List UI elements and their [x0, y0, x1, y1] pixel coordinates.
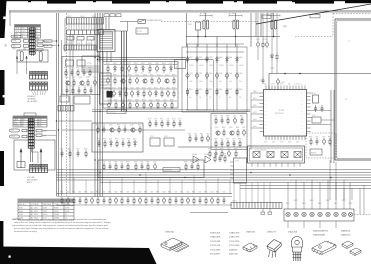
svg-text:RY802: RY802 [36, 51, 40, 53]
key scan resistor ladder left of IC [251, 93, 260, 150]
svg-text:L703: L703 [87, 43, 90, 45]
TO-220F package [292, 237, 303, 262]
oval texts block3 [11, 130, 16, 138]
IC701 internal pin names right [301, 93, 303, 134]
table T2 text [14, 118, 42, 128]
svg-text:R921: R921 [150, 74, 154, 76]
svg-text:C962: C962 [206, 133, 210, 135]
dashed continuation right [354, 214, 371, 216]
svg-text:D903: D903 [209, 57, 213, 59]
svg-text:C732: C732 [260, 80, 264, 82]
svg-text:R766: R766 [127, 138, 131, 140]
AC cord wires [106, 17, 109, 30]
svg-text:C605: C605 [114, 192, 118, 194]
svg-text:STA714DK: STA714DK [210, 232, 221, 235]
svg-text:R914: R914 [134, 63, 138, 65]
svg-text:1N4002: 1N4002 [239, 65, 244, 67]
svg-text:C592: C592 [76, 148, 80, 150]
svg-text:R962: R962 [200, 133, 204, 135]
svg-text:4700u: 4700u [199, 81, 203, 83]
svg-text:C764: C764 [121, 138, 125, 140]
svg-text:P12: P12 [265, 128, 267, 130]
svg-text:C746: C746 [77, 86, 81, 88]
op-amp A triangle [193, 156, 199, 163]
sheet top border line [9, 10, 371, 12]
svg-text:R762: R762 [117, 124, 121, 126]
IC701 internal pin numbers bottom [265, 134, 306, 136]
wires from decoupling to IC top [258, 13, 278, 89]
op-amp inner box [250, 148, 303, 161]
connector drop wires [234, 182, 270, 203]
svg-text:1N4002: 1N4002 [229, 65, 234, 67]
svg-text:R913: R913 [120, 63, 124, 65]
svg-text:D701: D701 [312, 115, 316, 117]
svg-text:D901: D901 [189, 57, 193, 59]
svg-text:1-2: 1-2 [22, 34, 24, 36]
svg-text:D761: D761 [109, 138, 113, 140]
block3 outer box [14, 140, 55, 170]
svg-text:2SA1362: 2SA1362 [229, 248, 238, 251]
front panel board outline [64, 18, 66, 52]
transformer secondary leads [99, 52, 111, 63]
sheet top border second line [9, 12, 371, 14]
speaker fan-out lines [31, 90, 46, 95]
svg-text:UL: UL [65, 214, 67, 216]
svg-text:P06: P06 [265, 114, 267, 116]
rail junction dots [284, 73, 301, 75]
filter labels [67, 43, 90, 45]
svg-text:LED1: LED1 [253, 126, 257, 128]
svg-text:C601: C601 [66, 192, 70, 194]
svg-text:C928: C928 [163, 99, 167, 101]
svg-text:R745: R745 [86, 77, 90, 79]
regulator board outline [103, 62, 178, 109]
op-amp box C [281, 152, 288, 158]
svg-text:R953: R953 [240, 115, 244, 117]
bus line 4 [57, 179, 371, 181]
connector oval CN102 [11, 44, 21, 47]
sub board feed wire [213, 60, 215, 112]
svg-text:C773: C773 [178, 118, 182, 120]
svg-text:R781: R781 [102, 161, 106, 163]
svg-text:R786: R786 [184, 161, 188, 163]
svg-text:R791: R791 [208, 148, 212, 150]
svg-text:C912: C912 [155, 63, 159, 65]
svg-text:R958: R958 [238, 138, 242, 140]
bus junction dots column [56, 40, 103, 173]
svg-text:2.2k: 2.2k [209, 97, 212, 99]
svg-text:22u: 22u [162, 73, 164, 75]
svg-text:P26: P26 [301, 114, 303, 116]
IC701 right pins [307, 93, 311, 132]
svg-text:5.6k: 5.6k [189, 97, 192, 99]
svg-text:and waveforms are measured wit: and waveforms are measured with a high i… [12, 224, 109, 227]
svg-text:C742: C742 [82, 68, 86, 70]
rectifier diode row [186, 56, 238, 63]
svg-text:R801: R801 [36, 39, 40, 41]
IC7 pin stubs bottom [252, 163, 300, 167]
relay coil capsule 2 [39, 52, 42, 62]
box B comps [103, 163, 129, 171]
svg-text:R785: R785 [146, 161, 150, 163]
svg-text:D701: D701 [270, 56, 274, 58]
bus junction dots [99, 172, 331, 178]
svg-text:R771: R771 [148, 118, 152, 120]
IC701 internal pin names left [265, 93, 267, 134]
right box top edge [335, 18, 371, 20]
svg-text:RM701: RM701 [311, 152, 316, 154]
svg-text:CN802: CN802 [12, 49, 17, 51]
reg row3 labels [106, 87, 176, 89]
svg-text:DTA124UK: DTA124UK [229, 232, 240, 235]
svg-text:P11: P11 [265, 125, 267, 127]
bus line 2 [57, 174, 371, 176]
decoupling labels [256, 39, 285, 84]
lower boxes labels [60, 94, 78, 96]
ribbon lower bank 2 [64, 45, 96, 50]
svg-text:C927: C927 [149, 99, 153, 101]
svg-text:R916: R916 [162, 63, 166, 65]
connector strip dots block3 [30, 165, 46, 167]
svg-text:2SB774K: 2SB774K [229, 254, 238, 256]
reg row2 components [106, 77, 175, 85]
bus wire pair left b [58, 13, 60, 196]
box B labels group 2 [134, 161, 157, 163]
svg-text:R812: R812 [294, 200, 298, 202]
label marks above fuses [200, 15, 280, 17]
svg-text:R927: R927 [160, 87, 164, 89]
svg-text:DAN202U: DAN202U [341, 234, 351, 237]
svg-text:R904: R904 [219, 89, 223, 91]
IC701 left pins [260, 93, 264, 132]
lower boxes [60, 96, 90, 104]
bus line 7 [240, 187, 371, 189]
svg-text:R796: R796 [223, 153, 227, 155]
svg-text:C791: C791 [214, 148, 218, 150]
svg-text:R761: R761 [96, 124, 100, 126]
IC701 top pins [266, 86, 305, 90]
svg-text:R765: R765 [115, 138, 119, 140]
svg-text:Q761: Q761 [109, 124, 113, 126]
svg-text:J802: J802 [23, 49, 26, 51]
svg-text:4700u: 4700u [189, 81, 193, 83]
jack box J1 [24, 40, 29, 43]
svg-text:P02: P02 [265, 100, 267, 102]
svg-text:R610: R610 [168, 192, 172, 194]
svg-text:X701: X701 [312, 93, 316, 95]
varistor box [196, 22, 201, 30]
svg-text:R919: R919 [128, 74, 132, 76]
svg-text:Q952: Q952 [229, 127, 233, 129]
svg-text:C792: C792 [227, 148, 231, 150]
svg-text:R611: R611 [180, 192, 183, 194]
svg-text:R612: R612 [192, 192, 196, 194]
svg-text:2.2k: 2.2k [127, 73, 130, 75]
svg-text:1N4002: 1N4002 [209, 65, 214, 67]
svg-text:C761: C761 [102, 124, 106, 126]
vertical pair b [333, 90, 335, 163]
svg-text:XIN: XIN [288, 84, 290, 86]
svg-text:R591: R591 [68, 148, 72, 150]
aux comps left of sub board [189, 135, 210, 143]
svg-text:D762: D762 [133, 138, 137, 140]
bus-to-row drop wires [62, 173, 230, 194]
reg row4 labels [107, 99, 174, 101]
svg-text:D913: D913 [169, 63, 173, 65]
svg-text:C902: C902 [199, 73, 203, 75]
polarized cap capsule b3-2 [40, 149, 42, 168]
table T2 header fill [13, 116, 47, 118]
aux label box power supply [175, 60, 186, 69]
fuse section left border wire [186, 13, 188, 47]
svg-text:L701: L701 [67, 43, 70, 45]
right box left edge [334, 19, 336, 160]
svg-text:P25: P25 [301, 111, 303, 113]
top edge tick b [93, 0, 96, 2]
svg-text:R607: R607 [132, 192, 136, 194]
svg-text:C613: C613 [210, 192, 214, 194]
oval texts [13, 36, 18, 47]
lamp array box [284, 209, 354, 221]
box B title strip [163, 168, 180, 172]
ribbon wires mid drop [67, 40, 92, 45]
svg-text:R602: R602 [72, 192, 76, 194]
svg-text:R764: R764 [103, 138, 107, 140]
right box bottom edge [335, 159, 371, 161]
divider rail center [92, 111, 250, 113]
svg-text:XOUT: XOUT [296, 84, 300, 86]
secondary rail 2 [186, 51, 244, 53]
svg-text:1N4002: 1N4002 [219, 65, 224, 67]
svg-text:R783: R783 [126, 161, 130, 163]
array drop wires from bus [288, 180, 350, 209]
svg-text:VOLTAGE: VOLTAGE [31, 203, 40, 206]
svg-text:C961: C961 [194, 133, 198, 135]
svg-text:LED0: LED0 [253, 119, 257, 121]
resistor boxes right of chain [37, 40, 43, 42]
op-amp U7A box [253, 152, 260, 158]
table T2 label box [24, 113, 36, 116]
svg-text:D917: D917 [154, 87, 158, 89]
svg-text:R744: R744 [72, 77, 76, 79]
svg-text:R903: R903 [209, 89, 213, 91]
horizontal link line upper [58, 120, 92, 122]
legend label DAN202 [341, 230, 351, 237]
secondary ground rail [186, 109, 250, 111]
op-amp bias resistors [214, 155, 226, 163]
svg-text:SP B: SP B [16, 31, 20, 33]
svg-text:C741: C741 [70, 68, 74, 70]
bottom row labels [60, 192, 226, 194]
svg-text:R613: R613 [204, 192, 208, 194]
bottom rail second [57, 196, 233, 198]
small box inside block3 [17, 162, 25, 168]
lamp symbols inside array box [286, 212, 353, 216]
svg-text:SPEAKER: SPEAKER [27, 95, 36, 98]
svg-text:(AL) BOARD: (AL) BOARD [27, 100, 38, 103]
jack box J2 [24, 45, 29, 48]
svg-text:R818: R818 [342, 200, 346, 202]
svg-text:C611: C611 [186, 192, 189, 194]
fuse F903 [271, 20, 273, 29]
svg-text:P13: P13 [265, 132, 267, 134]
headphone amp tall box [234, 158, 247, 183]
table T1 cell text [16, 27, 39, 38]
svg-text:C952: C952 [233, 115, 237, 117]
svg-text:Q912: Q912 [143, 74, 147, 76]
transformer winding hatch [100, 34, 112, 47]
sub board comps row3 [215, 140, 241, 148]
svg-text:2SD1406: 2SD1406 [288, 232, 298, 234]
smoothing cap labels [189, 73, 242, 75]
svg-text:C916: C916 [157, 74, 161, 76]
svg-text:C591: C591 [60, 148, 64, 150]
mid comps row2 labels [65, 77, 97, 79]
right box interior specks [345, 41, 351, 101]
remote receiver comps [310, 138, 331, 146]
op-amp U7B box [267, 152, 274, 158]
bottom rail [57, 193, 233, 195]
svg-text:R928: R928 [172, 87, 176, 89]
svg-text:C772: C772 [166, 118, 170, 120]
svg-text:KEY1: KEY1 [253, 98, 257, 100]
IC701 internal pin numbers top [265, 91, 306, 93]
transformer T901 inner winding box [100, 32, 113, 49]
choke hatch [100, 76, 111, 88]
display driver board outline [62, 57, 100, 95]
dashed board outline vertical [66, 13, 68, 196]
svg-text:C604: C604 [102, 192, 106, 194]
SC-59 diode package 1 [342, 241, 353, 249]
svg-text:AC 120V: AC 120V [200, 12, 208, 15]
preamp cluster labels [208, 148, 238, 150]
svg-text:R746: R746 [71, 86, 75, 88]
svg-text:1000u: 1000u [209, 81, 213, 83]
svg-text:C901: C901 [189, 73, 193, 75]
svg-text:560: 560 [141, 73, 143, 75]
svg-text:DAN202K: DAN202K [341, 230, 351, 233]
svg-text:order to this unit. Safety cri: order to this unit. Safety critical comp… [14, 221, 111, 224]
svg-text:R951: R951 [214, 115, 218, 117]
hatched connector bottom left mid [58, 106, 74, 112]
box A title strip [107, 110, 126, 114]
box A comps row2 labels [97, 138, 137, 140]
op-amp box D [294, 152, 301, 158]
mid comps row3 labels [65, 86, 93, 88]
svg-text:C603: C603 [90, 192, 94, 194]
wide board right edge [246, 147, 248, 163]
heavy vertical feed pair [122, 31, 127, 112]
svg-text:R816: R816 [326, 200, 330, 202]
box B comps group 2 [135, 163, 157, 171]
svg-text:C762: C762 [123, 124, 127, 126]
box A comps row2 [98, 140, 137, 148]
fuse F902 [233, 20, 235, 29]
wire to bus from jack [43, 40, 56, 42]
svg-text:R924: R924 [106, 87, 110, 89]
svg-text:R851: R851 [309, 136, 313, 138]
speaker terminal strip upper [30, 72, 48, 80]
bus wire extra 3 [72, 34, 74, 193]
svg-text:C852: C852 [322, 136, 326, 138]
svg-text:IC703: IC703 [74, 94, 78, 96]
svg-text:KEY2: KEY2 [253, 105, 257, 107]
bus wire extra 2 [69, 34, 71, 193]
svg-text:C922: C922 [166, 87, 170, 89]
reg row2 rail [104, 75, 177, 77]
svg-text:C911: C911 [127, 63, 131, 65]
svg-text:WATTAGE: WATTAGE [43, 203, 52, 206]
svg-text:C906: C906 [239, 73, 243, 75]
box B comps group 3 [185, 163, 199, 171]
fuse leads [198, 13, 274, 37]
svg-text:10u: 10u [134, 73, 136, 75]
svg-text:R605: R605 [108, 192, 112, 194]
svg-text:R792: R792 [220, 148, 224, 150]
svg-text:NJM4560MD: NJM4560MD [313, 235, 326, 237]
svg-text:R743: R743 [88, 68, 92, 70]
reset block box [312, 117, 321, 123]
svg-text:Q741: Q741 [65, 77, 69, 79]
choke block under transformer [100, 73, 112, 104]
svg-text:M37221M4: M37221M4 [275, 113, 284, 115]
svg-text:R601: R601 [60, 192, 64, 194]
svg-text:RY901: RY901 [137, 31, 142, 33]
svg-text:R956: R956 [214, 138, 218, 140]
wires IC right to bus [311, 93, 335, 125]
sub board box lower [211, 114, 247, 150]
svg-text:(AD) BOARD: (AD) BOARD [27, 179, 38, 182]
svg-text:R604: R604 [96, 192, 100, 194]
array tail wires [288, 221, 336, 228]
sub board labels row1 [214, 115, 244, 117]
svg-text:R787: R787 [196, 161, 200, 163]
top right feed wires [251, 13, 261, 37]
svg-text:D902: D902 [199, 57, 203, 59]
svg-text:J801: J801 [23, 38, 26, 40]
svg-text:C926: C926 [135, 99, 139, 101]
ribbon wires drop [69, 24, 102, 30]
relay box block1 [17, 50, 48, 62]
svg-text:VCC: VCC [264, 84, 267, 86]
svg-text:AC 120V: AC 120V [31, 206, 39, 209]
svg-text:DTC114EK: DTC114EK [210, 241, 221, 243]
svg-text:R742: R742 [76, 68, 80, 70]
reg row1 value labels [106, 63, 173, 65]
terminal strip inner dots [30, 72, 46, 85]
reg row1 components [107, 65, 172, 73]
reg row2 labels [106, 74, 176, 76]
svg-text:R852: R852 [328, 136, 332, 138]
output connector strip [231, 203, 282, 209]
svg-text:RY701: RY701 [60, 94, 64, 96]
left edge strip segment 3 [0, 151, 4, 186]
pre-B labels [60, 148, 88, 150]
svg-text:R608: R608 [144, 192, 148, 194]
svg-text:-B: -B [176, 67, 178, 69]
svg-text:IC701: IC701 [279, 110, 285, 112]
svg-text:C924: C924 [107, 99, 111, 101]
thermal fuse label box [262, 15, 271, 18]
svg-text:1N4002: 1N4002 [199, 65, 204, 67]
top edge tick c [166, 0, 169, 2]
left cluster tiny text [12, 38, 40, 53]
preamp cluster above wide edge [209, 150, 237, 158]
remote receiver dashed box [306, 133, 336, 158]
legend text column 2 [229, 232, 240, 256]
svg-text:R814: R814 [310, 200, 314, 202]
svg-text:P10: P10 [265, 121, 267, 123]
